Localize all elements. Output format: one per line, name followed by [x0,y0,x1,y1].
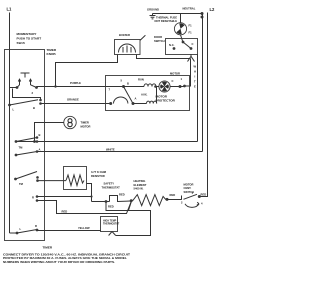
svg-text:A: A [39,148,41,152]
timer heat contact terminals [32,195,38,202]
svg-text:PUSH TO START: PUSH TO START [17,37,42,41]
svg-text:E: E [194,85,196,89]
wire yellow: timer to high temp thermostat [37,226,101,231]
svg-text:RED: RED [108,205,114,209]
motor run winding [124,78,157,87]
wire buzzer right lead to door switch plunger [137,55,191,59]
wire white return to neutral [37,14,203,152]
timer contact block2 upper [15,133,41,150]
svg-text:KNOB: KNOB [47,52,57,56]
heating element [130,179,176,206]
svg-text:AUX.: AUX. [141,93,148,97]
svg-text:TIMER: TIMER [43,246,53,250]
svg-text:TIMER: TIMER [81,121,89,125]
motor terminal 7 and aux winding [109,87,157,106]
svg-text:SWITCH: SWITCH [154,39,165,43]
timer contact L [8,91,42,112]
svg-text:A: A [135,97,137,101]
wire timer motor lead [35,123,64,142]
svg-text:NUMBERS WHEN WRITING ABOUT YOU: NUMBERS WHEN WRITING ABOUT YOUR DRYER OR… [3,260,115,264]
svg-text:F1: F1 [189,31,193,35]
wire orange: contact L to motor terminal 7 [41,103,111,105]
svg-text:MOTOR: MOTOR [170,72,180,76]
svg-text:THERMAL FUSE: THERMAL FUSE [156,15,177,19]
svg-text:NOT RESETABLE: NOT RESETABLE [155,19,178,23]
svg-text:GROUND: GROUND [147,8,159,12]
svg-text:SAFETY: SAFETY [104,182,115,186]
buzzer [115,33,146,55]
svg-text:3.77 K OHM: 3.77 K OHM [91,170,107,174]
timer enclosure [5,50,45,241]
high temp thermostat [101,202,151,236]
svg-text:WHITE: WHITE [106,148,115,152]
svg-text:H: H [194,70,196,74]
wire neutral [153,12,204,19]
svg-text:RED: RED [170,193,176,197]
svg-text:DOOR: DOOR [154,35,162,39]
timer contact block2 lower (white) [15,148,41,157]
svg-text:ELEMENT: ELEMENT [134,183,147,187]
svg-text:PROTECTED BY MAXIMUM 30 A. FUS: PROTECTED BY MAXIMUM 30 A. FUSES. ALWAYS… [3,256,128,260]
svg-text:THERMOSTAT: THERMOSTAT [102,185,121,189]
timer motor TM [64,116,91,128]
svg-text:RED: RED [201,192,207,196]
wire L2 down right side [199,13,207,197]
svg-text:RESISTOR: RESISTOR [91,174,105,178]
wire white: door switch to motor terminal 1 [185,59,197,89]
svg-text:NEUTRAL: NEUTRAL [183,7,196,11]
thermal fuse F1 [155,14,193,42]
svg-text:BUZZER: BUZZER [119,33,130,37]
svg-text:B: B [39,133,41,137]
svg-text:N.C.: N.C. [169,43,175,47]
svg-text:C: C [192,42,194,46]
svg-text:L1: L1 [7,7,13,12]
svg-text:PROTECTOR: PROTECTOR [156,99,176,103]
push-to-start switch SW-B [16,73,38,89]
svg-text:CENT.: CENT. [184,186,192,190]
resistor R1 [38,167,107,202]
safety thermostat [92,182,132,209]
ground [150,14,156,19]
fine print notes [3,253,131,264]
svg-text:ORANGE: ORANGE [67,98,79,102]
motor terminal 1 [172,77,186,88]
door switch [154,35,198,62]
svg-text:MOTOR: MOTOR [81,124,91,128]
wire purple: push switch to motor terminal 5 [37,86,124,88]
svg-text:R: R [32,196,34,200]
motor enclosure [106,76,190,111]
motor centrifugal start switch [124,87,134,104]
wire timer contact to door-switch corner (long return) [16,54,198,142]
motor terminal 5 [121,79,130,89]
wire contact L upper [13,89,41,101]
wire red: timer to heater node [37,201,131,214]
svg-text:THERMOSTAT: THERMOSTAT [103,222,120,225]
timer bottom contact (yellow) [10,224,39,234]
motor protector [154,81,180,103]
wire timer to resistor loop [37,196,92,198]
svg-text:RUN: RUN [138,78,144,82]
svg-text:B: B [127,82,129,86]
timer contact block3 [14,172,39,187]
svg-text:5400 W.: 5400 W. [134,187,144,191]
svg-text:SW-B: SW-B [17,41,26,45]
svg-text:YELLOW: YELLOW [78,226,90,230]
motor centrifugal switch (heater contact) [167,182,206,207]
svg-text:C: C [172,79,174,83]
svg-text:MOMENTARY: MOMENTARY [17,32,38,36]
svg-text:PURPLE: PURPLE [70,81,81,85]
wire buzzer left lead to purple node [56,55,118,87]
svg-text:B: B [33,106,35,110]
svg-text:F1: F1 [189,24,193,28]
wire L1 rail [9,13,11,234]
svg-text:R: R [35,224,37,228]
wire push-to-start to L1 rail [10,87,18,89]
svg-text:HEATING: HEATING [134,179,146,183]
svg-text:L2: L2 [210,7,216,12]
svg-text:CONNECT DRYER TO 120/240 V.A.C: CONNECT DRYER TO 120/240 V.A.C., 60 HZ. … [3,253,131,257]
svg-text:RED: RED [62,209,68,213]
svg-text:MOTOR: MOTOR [184,182,194,186]
svg-text:RED: RED [119,193,125,197]
